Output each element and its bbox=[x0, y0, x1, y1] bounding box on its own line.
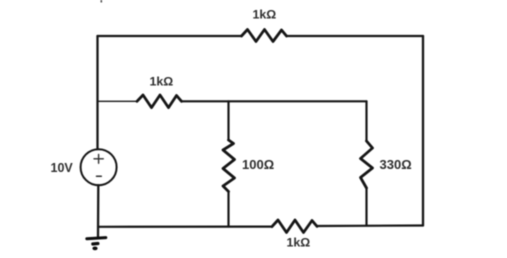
resistor R1 100 zigzag bbox=[223, 140, 235, 192]
wire 100ohm top lead bbox=[227, 101, 229, 140]
svg-text:100Ω: 100Ω bbox=[242, 157, 274, 172]
wire left vertical (top corner to source) bbox=[96, 36, 98, 150]
wire bottom: resistor to right corner bbox=[317, 224, 423, 227]
resistor R2 330 zigzag bbox=[361, 141, 373, 188]
wire 330ohm top lead bbox=[365, 101, 367, 141]
source V1 minus sign bbox=[97, 175, 102, 177]
ground bar 1 bbox=[87, 238, 106, 239]
wire middle branch to 330 corner bbox=[182, 100, 367, 102]
wire right vertical bbox=[422, 36, 424, 226]
svg-text:1kΩ: 1kΩ bbox=[287, 236, 311, 250]
wire top: top resistor to right corner bbox=[287, 35, 424, 37]
svg-text:10V: 10V bbox=[51, 161, 74, 175]
artifact tick top edge bbox=[100, 0, 102, 3]
wire top: left corner to top resistor bbox=[98, 35, 242, 37]
wire bottom: ground junction to bottom resistor bbox=[98, 226, 272, 228]
ground bar 2 bbox=[93, 242, 98, 246]
resistor R-top 1k zigzag bbox=[242, 30, 287, 42]
svg-text:1kΩ: 1kΩ bbox=[150, 75, 174, 89]
wire 100ohm bottom lead bbox=[227, 192, 229, 227]
ground bar 3 bbox=[92, 247, 97, 251]
resistor R-bot 1k zigzag bbox=[272, 220, 317, 233]
wire source bottom lead to ground bbox=[97, 185, 100, 237]
wire 330ohm bottom lead bbox=[365, 188, 367, 226]
wire middle thin lead bbox=[98, 100, 137, 102]
source V1 circle bbox=[81, 149, 117, 185]
svg-text:1kΩ: 1kΩ bbox=[253, 8, 277, 22]
source V1 plus sign bbox=[94, 154, 103, 163]
resistor R-mid 1k zigzag bbox=[137, 95, 182, 108]
svg-text:330Ω: 330Ω bbox=[380, 157, 412, 172]
